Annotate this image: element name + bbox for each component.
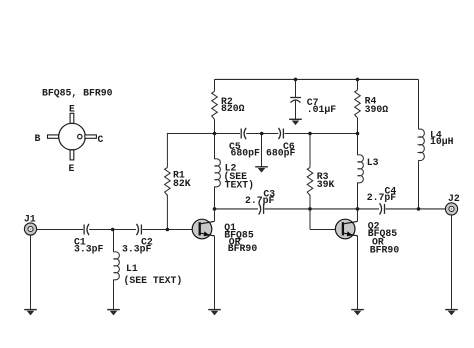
wire R3 bottom down to Q2 base level: [309, 195, 311, 230]
svg-text:J1: J1: [24, 214, 36, 225]
node junction R3 collector line: [308, 207, 312, 211]
wire collector line left segment: [215, 208, 259, 210]
svg-text:E: E: [69, 163, 75, 174]
svg-text:680pF: 680pF: [266, 148, 296, 159]
wire R4 top stub: [357, 79, 359, 90]
pinout lead right C: [85, 135, 97, 138]
wire R1 bottom to base line: [166, 195, 168, 230]
wire J2 ground stub: [451, 215, 453, 310]
node junction R4 top: [356, 78, 360, 82]
pinout lead top E: [70, 113, 74, 123]
ground below J1: [24, 310, 37, 316]
node junction C5 C6: [260, 132, 264, 136]
inductor L2: [214, 134, 216, 160]
transistor Q2: [335, 219, 357, 239]
wire second rail segment left: [167, 133, 240, 135]
wire R2 bottom stub: [214, 119, 216, 133]
capacitor C7: [294, 78, 298, 82]
svg-text:2.7pF: 2.7pF: [367, 192, 397, 203]
wire C5 C6 ground stub: [261, 134, 263, 167]
inductor L4: [418, 79, 420, 129]
wire top supply rail: [215, 78, 419, 80]
svg-text:TEXT): TEXT): [225, 180, 254, 191]
wire R3 top from rail: [309, 134, 311, 168]
svg-text:390Ω: 390Ω: [365, 104, 389, 115]
capacitor C3: [259, 203, 264, 214]
node junction R3 rail: [308, 132, 312, 136]
svg-text:(SEE TEXT): (SEE TEXT): [124, 275, 183, 286]
wire Q1 emitter down: [214, 236, 216, 310]
ground below C5 C6 junction: [255, 167, 268, 173]
wire collector line right segment to J2: [386, 208, 446, 210]
pinout lead bottom E: [70, 150, 74, 160]
wire second rail segment right: [285, 133, 358, 135]
svg-text:L3: L3: [367, 157, 379, 168]
capacitor C6: [279, 128, 284, 139]
inductor L1: [113, 230, 115, 253]
svg-text:BFR90: BFR90: [370, 245, 400, 256]
svg-text:L1: L1: [126, 263, 138, 274]
wire L1 ground stub: [113, 280, 115, 310]
node junction rail L2 R2: [213, 132, 217, 136]
ground below C7: [289, 119, 302, 125]
node junction L4 output: [417, 207, 421, 211]
connector J2: [445, 203, 457, 215]
svg-text:820Ω: 820Ω: [221, 103, 245, 114]
transistor Q1: [192, 219, 214, 239]
wire collector line mid segment: [265, 208, 379, 210]
svg-text:J2: J2: [448, 193, 460, 204]
wire L4 bottom: [418, 160, 420, 209]
node junction Q1 collector: [213, 207, 217, 211]
svg-text:.01µF: .01µF: [307, 104, 337, 115]
svg-text:2.7pF: 2.7pF: [245, 195, 275, 206]
capacitor C2: [137, 224, 142, 235]
wire R1 top from rail: [166, 133, 168, 167]
resistor R1: [165, 167, 171, 195]
capacitor C4: [380, 203, 385, 214]
ground below Q1: [208, 310, 221, 316]
connector J1: [24, 223, 36, 235]
inductor L3: [357, 134, 359, 156]
pinout lead left B: [48, 135, 59, 138]
svg-text:680pF: 680pF: [231, 148, 261, 159]
wire second rail segment mid: [246, 133, 278, 135]
ground below L1: [107, 310, 120, 316]
wire R4 bottom stub: [357, 118, 359, 134]
wire C2 to Q1 base: [142, 229, 192, 231]
resistor R2: [212, 91, 218, 119]
wire L3 bottom: [357, 183, 359, 209]
wire Q2 emitter down: [357, 236, 359, 310]
svg-text:C: C: [98, 134, 104, 145]
ground below J2: [445, 310, 458, 316]
resistor R3: [307, 167, 313, 195]
svg-text:39K: 39K: [317, 179, 335, 190]
wire J1 to C1: [37, 229, 84, 231]
wire J1 ground stub: [30, 235, 32, 310]
svg-text:82K: 82K: [173, 178, 191, 189]
wire C1 to C2: [89, 229, 136, 231]
svg-text:E: E: [69, 104, 75, 115]
node junction Q2 collector: [356, 207, 360, 211]
wire Q2 collector up: [357, 209, 359, 222]
node junction R1 base: [166, 228, 170, 232]
node junction L1 input: [111, 228, 115, 232]
node junction L3 rail: [356, 132, 360, 136]
capacitor C5: [241, 128, 246, 139]
svg-text:B: B: [35, 133, 41, 144]
ground below Q2: [351, 310, 364, 316]
capacitor C1: [84, 224, 89, 235]
svg-text:3.3pF: 3.3pF: [122, 244, 152, 255]
pinout package circle: [59, 123, 86, 150]
svg-text:BFR90: BFR90: [228, 243, 258, 254]
svg-text:3.3pF: 3.3pF: [74, 244, 104, 255]
wire R2 top stub: [214, 79, 216, 91]
resistor R4: [355, 90, 361, 118]
wire Q2 base: [310, 229, 335, 231]
svg-text:10µH: 10µH: [430, 136, 454, 147]
pinout index circle: [78, 134, 82, 138]
svg-text:BFQ85, BFR90: BFQ85, BFR90: [42, 88, 113, 99]
wire L2 bottom: [214, 187, 216, 209]
wire Q1 collector up: [214, 209, 216, 222]
